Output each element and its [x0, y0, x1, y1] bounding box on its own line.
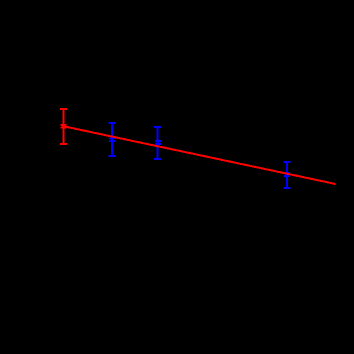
blue marker 3 — [284, 172, 290, 177]
red fit line — [64, 126, 336, 184]
blue error bar 3 (x=287) — [284, 162, 291, 188]
blue marker 1 — [109, 137, 115, 142]
blue error bar 2 (x=157.7) — [154, 127, 161, 159]
blue marker 2 — [155, 140, 161, 145]
red error bar (x=63.7) — [60, 109, 67, 144]
blue error bar 1 (x=111.8) — [108, 123, 115, 156]
red marker — [61, 124, 67, 129]
